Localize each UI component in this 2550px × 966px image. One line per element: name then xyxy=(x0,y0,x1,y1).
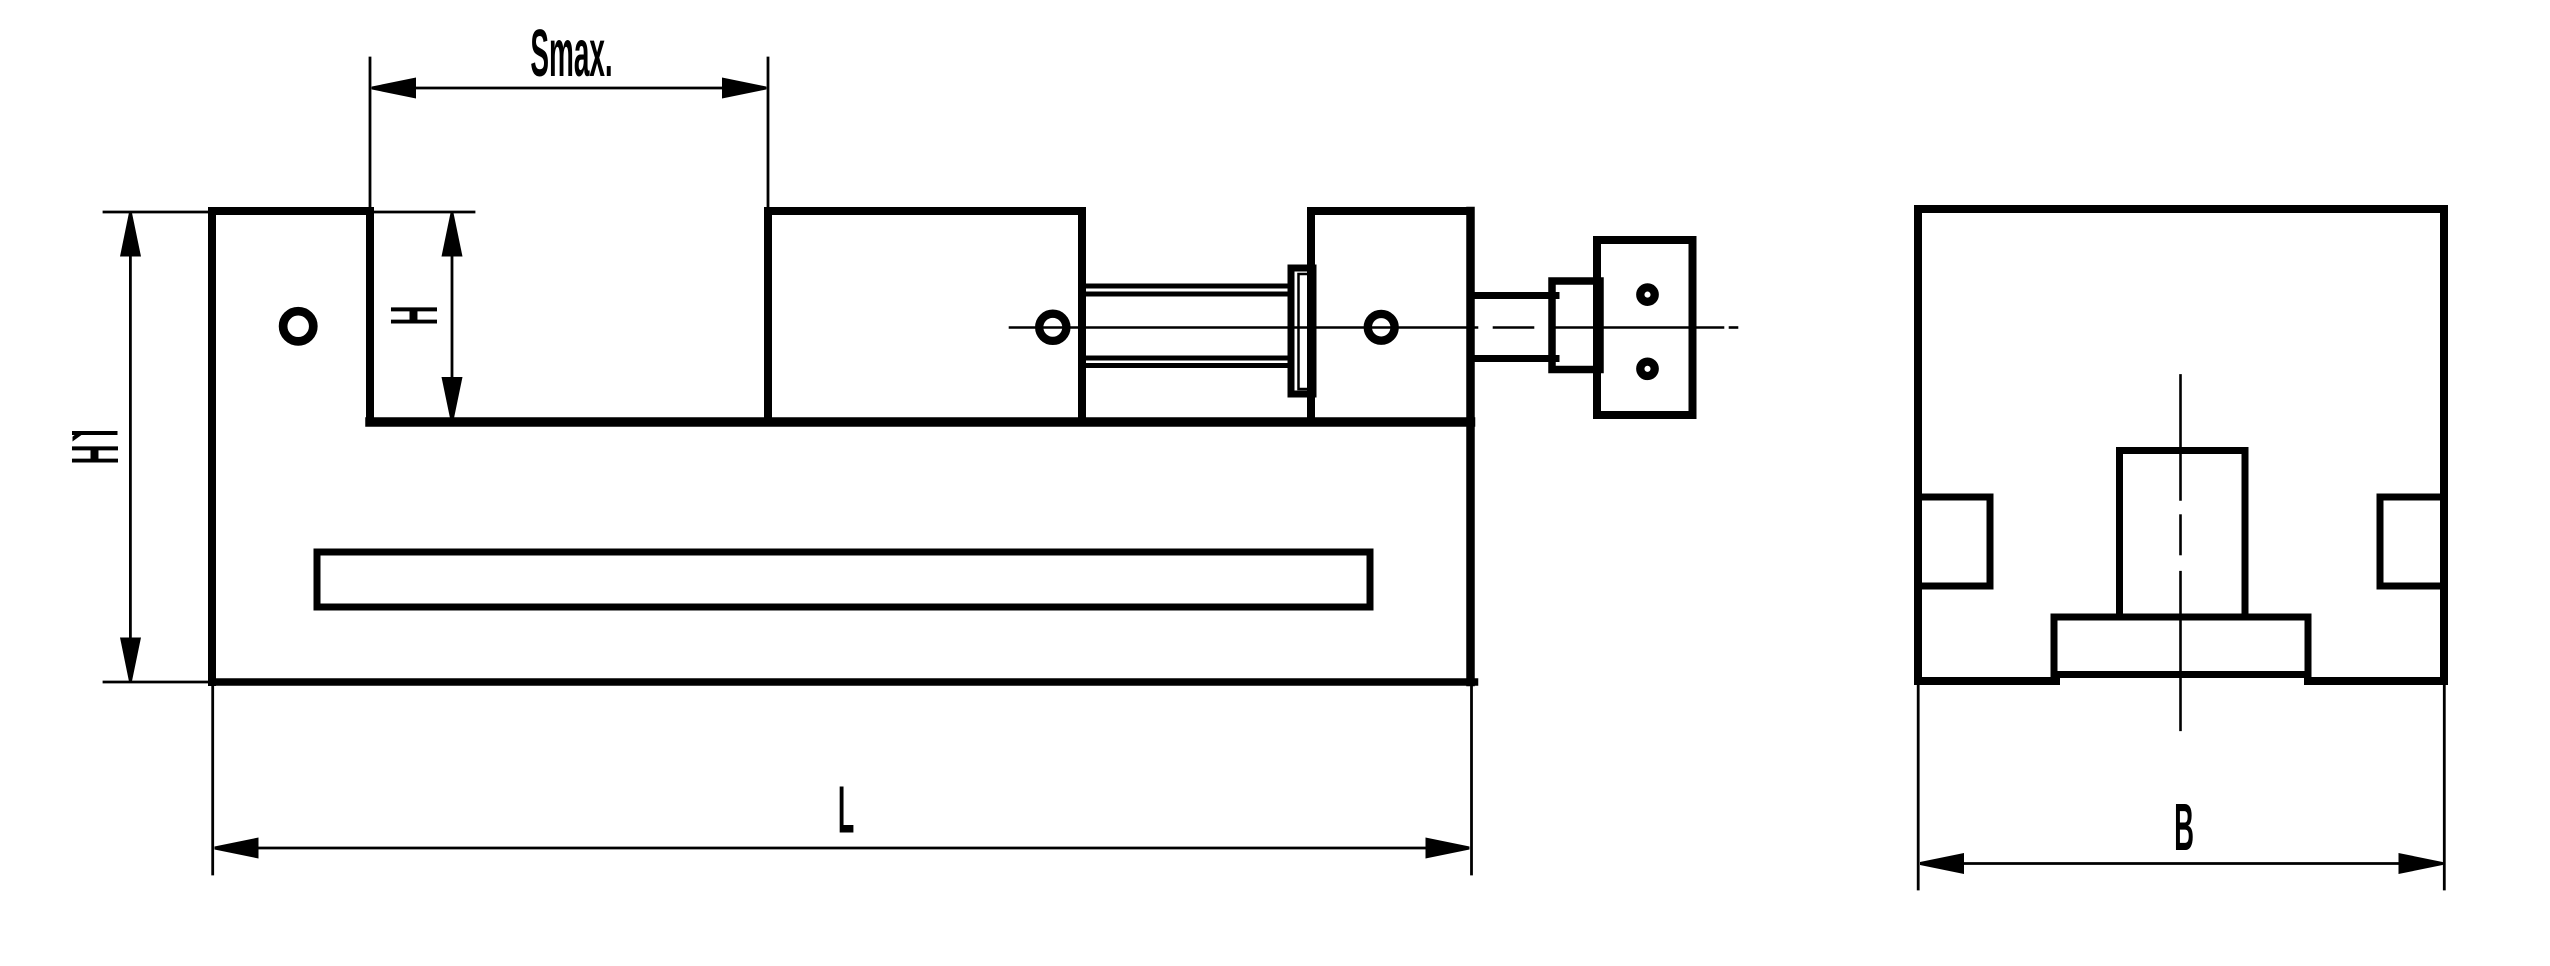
B left extension line xyxy=(1917,685,1920,889)
Smax left extension line xyxy=(369,58,372,208)
H1 bottom arrowhead xyxy=(120,638,141,682)
moving jaw block xyxy=(768,211,1082,422)
vise body: fixed jaw top edge xyxy=(212,207,370,215)
svg-text:H: H xyxy=(377,305,452,325)
end view: bottom edge left segment xyxy=(1918,677,2056,685)
pin hole on moving jaw xyxy=(1039,314,1066,341)
H1 dimension line xyxy=(129,214,132,680)
end view: base key block xyxy=(2054,617,2308,675)
end view: right clamping notch xyxy=(2380,497,2444,586)
pin hole on end bracket xyxy=(1368,314,1395,341)
L dimension line xyxy=(216,847,1468,850)
B left arrowhead xyxy=(1920,853,1964,874)
screw end knob xyxy=(1597,240,1693,415)
B dimension line xyxy=(1922,862,2442,865)
lead screw shaft (inner) top line xyxy=(1082,292,1291,297)
B right arrowhead xyxy=(2399,853,2443,874)
H top arrowhead xyxy=(442,213,463,257)
L left extension line xyxy=(211,686,214,874)
label H1 (rotated): digit 1 flag xyxy=(73,434,84,442)
label H1 (rotated): digit 1 stem xyxy=(72,431,118,435)
Smax dimension line xyxy=(373,87,765,90)
L right extension line xyxy=(1470,686,1473,874)
L right arrowhead xyxy=(1426,838,1470,859)
Smax left arrowhead xyxy=(372,78,416,99)
screw collar xyxy=(1552,281,1600,370)
vise body: left edge xyxy=(208,211,216,682)
screw shank top line (right of bracket) xyxy=(1470,292,1556,299)
lead screw sleeve (outer) top line xyxy=(1082,284,1291,289)
screw shank bottom line (right of bracket) xyxy=(1470,355,1556,362)
end view: left clamping notch xyxy=(1918,497,1990,586)
H dimension line xyxy=(451,214,454,420)
svg-text:Smax.: Smax. xyxy=(530,16,612,90)
knob upper hole xyxy=(1640,287,1654,301)
end view: bottom edge right segment xyxy=(2308,677,2444,685)
vise body: guide rail line (recess bottom) xyxy=(370,417,1471,427)
lead screw shaft (inner) bottom line xyxy=(1082,356,1291,361)
svg-text:L: L xyxy=(838,772,854,847)
svg-text:B: B xyxy=(2174,790,2194,865)
top extension line (H / H1) xyxy=(104,211,474,214)
end view: right edge xyxy=(2440,209,2448,681)
hole in fixed jaw xyxy=(283,311,313,341)
vise body: base bottom edge xyxy=(212,678,1475,686)
L left arrowhead xyxy=(215,838,259,859)
H bottom arrowhead xyxy=(442,377,463,421)
horizontal centerline end dot xyxy=(1730,326,1737,329)
vertical centerline segment 1 xyxy=(2179,375,2182,499)
vertical centerline dash xyxy=(2179,516,2182,554)
vise body: end bracket left edge xyxy=(1307,211,1315,422)
end view: top edge xyxy=(1918,205,2444,213)
vise body: right edge xyxy=(1466,211,1475,682)
lead screw sleeve (outer) bottom line xyxy=(1082,363,1291,368)
B right extension line xyxy=(2443,685,2446,889)
Smax right arrowhead xyxy=(722,78,766,99)
bottom-left extension line (H1) xyxy=(104,681,208,684)
end view: center guide tongue xyxy=(2120,451,2246,618)
screw flange / collar outer xyxy=(1291,268,1313,394)
end view: left edge xyxy=(1914,209,1922,681)
horizontal centerline segment 1 xyxy=(1010,326,1477,329)
vise body: end bracket top edge xyxy=(1311,207,1471,215)
H1 top arrowhead xyxy=(120,213,141,257)
screw flange inner line xyxy=(1299,274,1312,389)
vise body: fixed jaw face (recess left wall) xyxy=(366,211,374,422)
horizontal centerline segment 2 xyxy=(1550,326,1723,329)
Smax right extension line xyxy=(767,58,770,208)
svg-text:H: H xyxy=(58,444,133,464)
vertical centerline segment 2 xyxy=(2179,572,2182,730)
horizontal centerline dash xyxy=(1494,326,1533,329)
base T-slot xyxy=(317,552,1370,607)
knob lower hole xyxy=(1640,362,1654,376)
